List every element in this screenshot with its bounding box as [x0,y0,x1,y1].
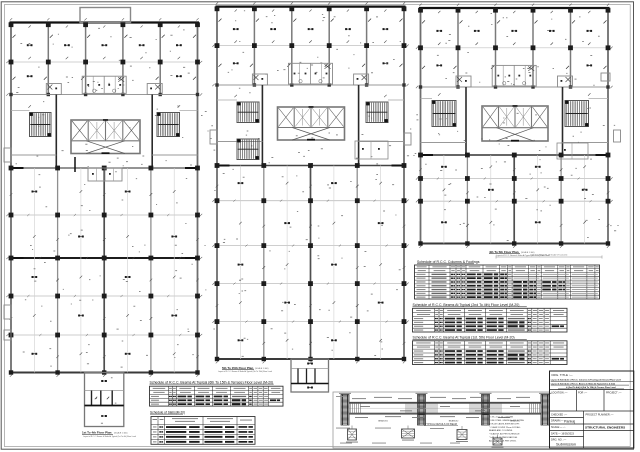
right plan top wall [419,7,610,9]
svg-text:DATE:— 16/05/2023: DATE:— 16/05/2023 [551,432,574,435]
left plan upper grid [11,61,198,63]
svg-text:Layout of R.C.C. Beams & Slabs: Layout of R.C.C. Beams & Slabs At Typica… [83,435,137,438]
title block drawn row [550,417,584,419]
right plan lift core [482,106,548,141]
title block drg no row [550,436,584,438]
svg-text:Schedule of R.C.C. Beams At Ty: Schedule of R.C.C. Beams At Typical (6th… [150,380,274,384]
right plan stair left [432,101,456,127]
svg-text:* SLAB TH. AS PER SCHEDULE: * SLAB TH. AS PER SCHEDULE [489,433,520,436]
beam detail box [333,392,550,448]
title block location row [550,389,634,391]
middle plan toilet block [289,63,333,84]
svg-text:Schedule of R.C.C. Columns & F: Schedule of R.C.C. Columns & Footings [417,260,480,264]
right plan lower grid [421,178,609,180]
middle plan lower grid [217,200,404,202]
svg-text:PROJECT :—: PROJECT :— [606,392,622,395]
svg-text:DRAWN:—: DRAWN:— [551,420,564,423]
right plan edge bumps [601,73,610,81]
left plan core walls [55,95,57,169]
right plan toilet block [492,65,536,86]
detail hatched column [482,395,490,426]
svg-text:(SCALE 1:100): (SCALE 1:100) [255,367,269,370]
svg-text:5th To 15th Floor Plan: 5th To 15th Floor Plan [222,366,253,370]
detail box small texts [336,395,346,398]
beam stirrup ticks [350,403,352,414]
svg-text:Pankaj: Pankaj [564,419,575,423]
right plan upper grid [421,47,609,49]
left plan toilet block [82,76,126,93]
svg-text:Submission: Submission [556,442,576,447]
table: columns and footings header [417,265,427,268]
svg-text:(SCALE 1:100): (SCALE 1:100) [114,432,128,435]
right plan separator wall [421,154,609,156]
middle plan lift core [278,107,345,140]
svg-text:SCALE:— -:-: SCALE:— -:- [551,426,566,429]
table: schedule of slabs content [153,418,158,421]
detail hatched column [541,395,549,426]
middle plan stair right [366,102,388,123]
svg-text:* 1 M = 10 x 10 = 100 MM: * 1 M = 10 x 10 = 100 MM [489,417,513,419]
svg-text:(SCALE 1:100): (SCALE 1:100) [521,251,535,254]
left plan stair right [157,113,180,137]
svg-text:Layout of R.C.C. Beams & Slabs: Layout of R.C.C. Beams & Slabs At Typica… [218,370,273,373]
svg-text:* CLEAR COVER 25mm FOR ALL: * CLEAR COVER 25mm FOR ALL [489,426,522,429]
middle plan outer walls [216,7,218,359]
right plan edge ticks [419,4,421,6]
svg-text:* USE STEEL GRADE Fe415 EXTRA: * USE STEEL GRADE Fe415 EXTRA [489,419,524,422]
beam detail labels [352,397,366,400]
left plan stair extension [85,373,124,427]
svg-text:DRG. TITLE :—: DRG. TITLE :— [552,373,573,377]
left plan stair left [30,113,52,137]
svg-text:Schedule of Slabs(M-20): Schedule of Slabs(M-20) [150,410,185,414]
right plan outer walls [420,8,422,244]
svg-text:Schedule of R.C.C. Beams At Ty: Schedule of R.C.C. Beams At Typical (2nd… [413,303,520,307]
middle plan separator wall [217,165,404,167]
svg-text:TOR, AT CANTILEVER BE LEFT.: TOR, AT CANTILEVER BE LEFT. [489,422,520,425]
title block checked row [550,410,634,412]
left plan outer walls [10,23,12,373]
bottom small section detail [493,438,502,445]
middle plan top wall [216,5,406,7]
middle plan stair left [237,102,259,123]
beam detail horizontal beam [350,401,542,403]
svg-text:TYPICAL DETAILS OF BEAM: TYPICAL DETAILS OF BEAM [425,423,457,426]
right plan core walls [465,87,467,155]
dimension marks between plans [205,110,207,113]
left plan lift core [71,120,140,154]
left plan side rooms [46,84,61,95]
left plan lower toilet cluster [88,168,122,181]
left plan roof tab [80,8,131,23]
table: columns and footings data [417,274,426,275]
left plan edge bumps [4,148,11,162]
column section details [348,429,357,440]
table: columns and footings grid [415,268,600,270]
svg-text:4th To 5th Floor Plan: 4th To 5th Floor Plan [489,250,519,254]
middle plan side rooms [252,74,267,85]
title block date row [550,429,584,431]
table: schedule of slabs grid [151,424,255,426]
svg-text:LOCATION :—: LOCATION :— [551,392,568,395]
middle plan edge ticks [216,2,218,4]
svg-text:Schedule of R.C.C. Beams At Ty: Schedule of R.C.C. Beams At Typical (1st… [413,336,515,340]
middle plan second stair [237,139,259,160]
detail hatched column [418,395,426,426]
title block scale row [550,423,584,425]
middle plan core small rooms [355,141,388,159]
left plan top wall [10,21,200,23]
svg-text:STRUCTURAL ENGINEERS: STRUCTURAL ENGINEERS [585,426,625,430]
svg-text:Columns Height M-25 Grade Of C: Columns Height M-25 Grade Of Concrete [531,254,569,257]
middle plan stair extension [291,359,329,392]
svg-text:FOR :—: FOR :— [578,392,588,395]
left plan lower grid [11,214,198,216]
right plan side rooms [456,76,471,87]
detail hatched column [341,395,349,426]
svg-text:PROJECT PLANNER :—: PROJECT PLANNER :— [586,413,615,416]
middle plan upper grid [217,45,404,47]
svg-text:BEAM-B1: BEAM-B1 [378,419,388,422]
left plan separator wall [11,167,198,169]
left plan edge ticks [10,18,12,20]
middle plan edge bumps [210,130,217,144]
svg-text:CHECKED :—: CHECKED :— [551,413,568,416]
title block border [550,371,634,448]
right plan core small rooms [557,143,588,159]
svg-text:BEAMS AND COLUMNS.: BEAMS AND COLUMNS. [489,429,513,432]
columns height bracket [496,256,602,258]
right plan stair right [565,101,589,127]
middle plan core walls [261,85,263,166]
svg-text:1st To 4th Floor Plan: 1st To 4th Floor Plan [82,431,112,435]
